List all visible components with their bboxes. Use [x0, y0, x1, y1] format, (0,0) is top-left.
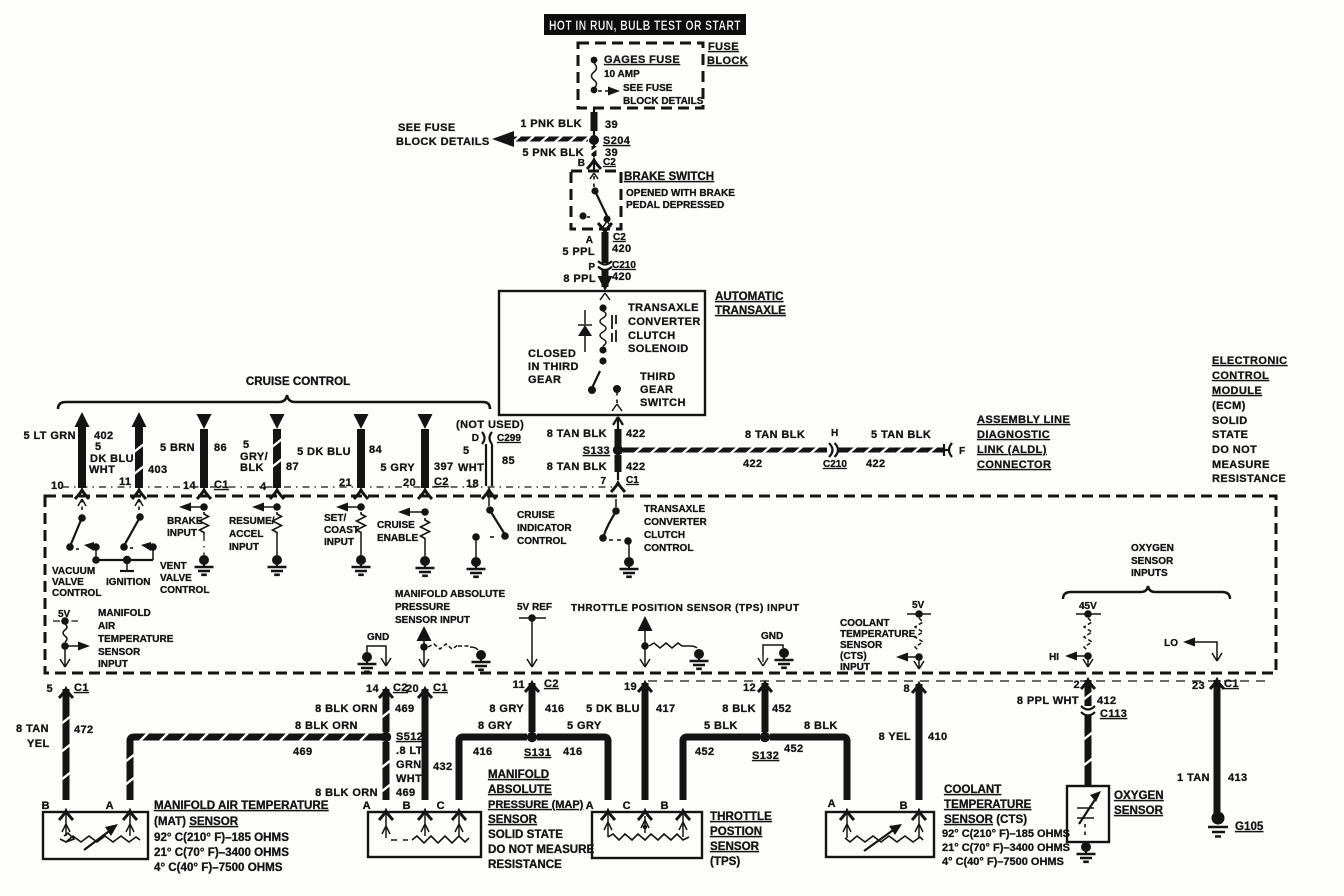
svg-text:SEE FUSE: SEE FUSE: [623, 83, 673, 94]
svg-text:BRAKE: BRAKE: [167, 516, 203, 527]
svg-text:422: 422: [743, 458, 763, 470]
svg-text:SENSOR: SENSOR: [98, 647, 141, 658]
svg-text:BLOCK: BLOCK: [707, 55, 748, 67]
svg-text:417: 417: [656, 703, 676, 715]
wire 416 8 GRY pin11 to S131: [489, 683, 564, 732]
svg-text:S204: S204: [603, 135, 631, 147]
svg-text:S512: S512: [396, 731, 423, 743]
svg-text:5 DK BLU: 5 DK BLU: [297, 446, 351, 458]
svg-text:H: H: [831, 428, 838, 439]
TCC control switch Q4: [599, 499, 638, 577]
MAT input label: [98, 608, 174, 670]
svg-text:1 TAN: 1 TAN: [1177, 772, 1210, 784]
oxygen sensor case ground: [1077, 842, 1096, 862]
MAT sensor box: [43, 812, 148, 859]
svg-text:SENSOR INPUT: SENSOR INPUT: [395, 615, 470, 626]
wire 469 8 BLK ORN pin14 to S512 (hatched): [315, 689, 414, 732]
svg-text:MANIFOLD: MANIFOLD: [98, 608, 151, 619]
svg-text:39: 39: [605, 119, 618, 131]
MAT thermistor RT1: [60, 812, 140, 850]
vent valve control switch Q2: [120, 499, 157, 560]
ECM dashed box: [45, 496, 1276, 673]
ignition bus: [92, 556, 153, 588]
svg-text:C210: C210: [612, 260, 636, 271]
svg-text:YEL: YEL: [27, 738, 50, 750]
svg-text:HI: HI: [1049, 652, 1059, 663]
svg-text:12: 12: [743, 682, 756, 694]
svg-text:8 TAN BLK: 8 TAN BLK: [547, 428, 607, 440]
svg-text:SEE FUSE: SEE FUSE: [398, 122, 456, 134]
svg-text:CONNECTOR: CONNECTOR: [977, 459, 1051, 471]
wire 413 1 TAN pin23 to G105: [1177, 680, 1248, 813]
svg-text:WHT: WHT: [396, 773, 422, 785]
svg-text:5 PPL: 5 PPL: [562, 246, 595, 258]
wire 432 pin20 to MAP B: [425, 689, 453, 800]
svg-text:INPUT: INPUT: [167, 528, 197, 539]
svg-text:VALVE: VALVE: [160, 573, 192, 584]
svg-text:5V REF: 5V REF: [517, 602, 552, 613]
svg-text:RESISTANCE: RESISTANCE: [1212, 473, 1286, 485]
svg-text:GAGES FUSE: GAGES FUSE: [604, 54, 680, 66]
svg-text:D: D: [472, 433, 479, 444]
svg-text:10: 10: [51, 480, 64, 492]
svg-text:469: 469: [396, 787, 416, 799]
svg-text:OXYGEN: OXYGEN: [1114, 789, 1164, 802]
oxygen sensor inputs label: [1131, 543, 1174, 579]
svg-text:MANIFOLD ABSOLUTE: MANIFOLD ABSOLUTE: [395, 589, 506, 600]
set/coast input network R3: [324, 503, 371, 575]
svg-text:LINK (ALDL): LINK (ALDL): [977, 444, 1047, 456]
svg-text:4° C(40° F)–7500 OHMS: 4° C(40° F)–7500 OHMS: [942, 856, 1064, 868]
svg-text:DO NOT: DO NOT: [1212, 444, 1257, 456]
svg-text:422: 422: [866, 458, 886, 470]
brake switch labels: [624, 170, 735, 211]
svg-text:RESUME/: RESUME/: [229, 516, 275, 527]
svg-text:SENSOR: SENSOR: [488, 813, 538, 826]
svg-text:WHT: WHT: [458, 462, 484, 474]
MAP input label: [395, 589, 506, 626]
wire 39 5 PNK BLK S204 to brake switch: [522, 144, 618, 159]
svg-text:AIR: AIR: [98, 621, 116, 632]
svg-text:PEDAL DEPRESSED: PEDAL DEPRESSED: [626, 200, 724, 211]
wire 397 5 GRY (cruise enable): [380, 414, 453, 499]
closed in third gear note: [528, 348, 579, 386]
GND node (TPS ground): [758, 631, 794, 668]
third gear switch text: [640, 371, 686, 409]
svg-text:C2: C2: [613, 232, 626, 243]
CTS terminals A B: [828, 798, 926, 820]
TCC solenoid L1: [599, 293, 616, 354]
svg-text:CRUISE: CRUISE: [517, 510, 555, 521]
svg-text:452: 452: [784, 743, 804, 755]
ECM pin 5 C1: [46, 682, 88, 698]
svg-text:CONTROL: CONTROL: [1212, 370, 1269, 382]
ECM pin 12: [743, 682, 772, 694]
svg-text:A: A: [586, 800, 594, 812]
connector dash-dot line (ECM bottom): [648, 680, 1270, 682]
cruise indicator control switch Q3: [467, 490, 509, 577]
automatic transaxle label: [715, 290, 786, 317]
svg-text:GRN: GRN: [396, 759, 422, 771]
svg-text:STATE: STATE: [1212, 429, 1248, 441]
CTS thermistor RT2: [843, 812, 923, 851]
svg-text:INPUT: INPUT: [229, 542, 259, 553]
svg-text:5 BRN: 5 BRN: [160, 442, 195, 454]
wire 86 5 BRN (brake input): [160, 414, 229, 499]
svg-text:5: 5: [243, 439, 250, 451]
svg-text:8 GRY: 8 GRY: [478, 720, 513, 732]
splice S132: [752, 732, 779, 762]
splice S204: [589, 135, 631, 147]
svg-text:SENSOR: SENSOR: [1131, 556, 1174, 567]
svg-text:INPUT: INPUT: [840, 662, 870, 673]
svg-text:CLOSED: CLOSED: [528, 348, 576, 360]
svg-text:5: 5: [463, 445, 470, 457]
svg-text:HOT IN RUN, BULB TEST OR START: HOT IN RUN, BULB TEST OR START: [549, 18, 741, 33]
svg-text:IN THIRD: IN THIRD: [528, 361, 579, 373]
svg-text:23: 23: [1192, 680, 1205, 692]
ALDL connector pin F: [944, 443, 965, 457]
MAP sensor internal resistor: [382, 812, 469, 843]
splice S512: [381, 731, 423, 743]
svg-text:B: B: [900, 800, 908, 812]
svg-text:OPENED WITH BRAKE: OPENED WITH BRAKE: [626, 188, 735, 199]
svg-text:PRESSURE: PRESSURE: [395, 602, 450, 613]
svg-text:A: A: [363, 800, 371, 812]
svg-text:BLK: BLK: [240, 462, 264, 474]
svg-text:(CTS): (CTS): [840, 651, 867, 662]
svg-text:84: 84: [369, 444, 383, 456]
splice S131: [524, 732, 551, 759]
connector dash-dot line C1/C2 (ECM top): [62, 486, 614, 488]
wire 412 pin2 C113 to oxygen sensor (hatched): [1083, 716, 1093, 786]
svg-text:420: 420: [612, 271, 632, 283]
svg-text:SOLENOID: SOLENOID: [628, 343, 689, 355]
MAP input network R6: [417, 626, 491, 670]
wire 422 8 TAN BLK S133 to C210 (hatched): [623, 429, 827, 470]
svg-text:422: 422: [626, 461, 646, 473]
wire 422 5 TAN BLK C210 to ALDL pin F (hatched): [838, 429, 944, 470]
wire 452 8 BLK pin12 to S132: [722, 683, 791, 732]
svg-text:8 BLK: 8 BLK: [804, 720, 838, 732]
svg-text:SENSOR: SENSOR: [1114, 804, 1164, 817]
ECM pin 2: [1073, 679, 1095, 691]
svg-text:8: 8: [903, 683, 910, 695]
wire 403 5 DK BLU WHT (vent valve control): [89, 412, 168, 499]
O2 LO input node: [1164, 638, 1222, 662]
ALDL connector label: [977, 414, 1070, 471]
svg-text:DO NOT MEASURE: DO NOT MEASURE: [488, 843, 595, 856]
svg-text:S131: S131: [524, 747, 551, 759]
svg-text:432: 432: [433, 761, 453, 773]
svg-text:SENSOR: SENSOR: [710, 840, 760, 853]
svg-text:BLOCK DETAILS: BLOCK DETAILS: [396, 136, 490, 148]
fuse F1 GAGES FUSE 10 AMP: [591, 54, 681, 93]
ECM pin 11 C2: [513, 678, 559, 692]
svg-text:403: 403: [148, 464, 168, 476]
svg-text:G105: G105: [1235, 820, 1264, 833]
svg-text:8 BLK ORN: 8 BLK ORN: [315, 703, 378, 715]
MAT input network 5V R5: [53, 609, 90, 667]
svg-text:397: 397: [434, 461, 454, 473]
svg-text:C: C: [623, 800, 631, 812]
wire 416 5 GRY S131 to TPS A: [537, 720, 608, 800]
svg-text:2: 2: [1073, 679, 1080, 691]
svg-text:8 GRY: 8 GRY: [489, 703, 524, 715]
svg-text:CRUISE: CRUISE: [377, 520, 415, 531]
svg-text:B: B: [403, 800, 411, 812]
svg-text:FUSE: FUSE: [708, 41, 739, 53]
svg-text:CLUTCH: CLUTCH: [628, 330, 676, 342]
solenoid text: [628, 302, 701, 355]
O2 HI input network R9 45V: [1049, 601, 1101, 667]
svg-text:420: 420: [612, 243, 632, 255]
svg-text:CONTROL: CONTROL: [517, 536, 566, 547]
wire 422 8 TAN BLK below transaxle: [547, 417, 646, 446]
svg-text:VENT: VENT: [160, 561, 187, 572]
svg-text:5: 5: [95, 441, 102, 453]
svg-text:416: 416: [473, 746, 493, 758]
svg-text:TEMPERATURE: TEMPERATURE: [98, 634, 174, 645]
svg-text:COOLANT: COOLANT: [944, 783, 1001, 796]
brake switch box: [571, 171, 621, 229]
svg-text:.8 LT: .8 LT: [396, 745, 423, 757]
svg-text:S133: S133: [583, 445, 610, 457]
svg-text:11: 11: [119, 476, 131, 488]
svg-text:21° C(70° F)–3400 OHMS: 21° C(70° F)–3400 OHMS: [154, 846, 289, 859]
svg-text:92° C(210° F)–185 OHMS: 92° C(210° F)–185 OHMS: [942, 828, 1070, 840]
svg-text:8 YEL: 8 YEL: [879, 731, 911, 743]
svg-text:8 PPL WHT: 8 PPL WHT: [1017, 695, 1079, 707]
svg-text:S132: S132: [752, 750, 779, 762]
TPS label: [710, 810, 772, 868]
svg-text:CRUISE CONTROL: CRUISE CONTROL: [246, 375, 350, 388]
svg-text:C2: C2: [603, 157, 616, 168]
MAP sensor label: [488, 768, 595, 871]
svg-text:TEMPERATURE: TEMPERATURE: [840, 629, 916, 640]
svg-text:410: 410: [928, 731, 948, 743]
wire 452 8 BLK S132 to CTS A: [770, 720, 847, 800]
svg-text:C1: C1: [626, 475, 639, 486]
svg-text:5: 5: [46, 683, 53, 695]
cruise indicator control label: [517, 510, 572, 547]
MAT sensor terminal A: [106, 800, 137, 820]
inline connector C210 pin P: [588, 260, 636, 273]
wire 39 1 PNK BLK fuse to S204: [520, 108, 618, 137]
brake input network R1: [167, 503, 214, 575]
svg-text:C1: C1: [1224, 678, 1239, 690]
CTS input label: [840, 618, 916, 673]
svg-text:C2: C2: [544, 678, 559, 690]
svg-text:SOLID: SOLID: [1212, 415, 1248, 427]
svg-text:GEAR: GEAR: [528, 374, 561, 386]
svg-text:WHT: WHT: [89, 464, 115, 476]
oxygen sensor label: [1114, 789, 1164, 817]
CTS label: [942, 783, 1070, 868]
wire 422 8 TAN BLK S133 to ECM pin 7: [547, 455, 646, 492]
ECM pin 20 C1: [406, 682, 448, 698]
svg-text:DIAGNOSTIC: DIAGNOSTIC: [977, 429, 1050, 441]
vacuum valve control switch Q1: [66, 499, 100, 560]
svg-text:87: 87: [286, 461, 299, 473]
GND node (MAP ground): [358, 632, 392, 672]
cruise enable network R4: [377, 508, 435, 576]
svg-text:SENSOR (CTS): SENSOR (CTS): [944, 813, 1027, 826]
ECM pin 23 C1: [1192, 678, 1239, 692]
svg-text:452: 452: [772, 703, 792, 715]
svg-text:TEMPERATURE: TEMPERATURE: [944, 798, 1032, 811]
svg-text:92° C(210° F)–185 OHMS: 92° C(210° F)–185 OHMS: [154, 831, 289, 844]
svg-text:A: A: [828, 798, 836, 810]
svg-text:B: B: [661, 800, 669, 812]
svg-text:INDICATOR: INDICATOR: [517, 523, 572, 534]
svg-text:C1: C1: [74, 682, 89, 694]
vent valve control label: [160, 561, 209, 596]
MAT sensor label: [154, 799, 329, 874]
svg-text:(TPS): (TPS): [710, 855, 740, 868]
svg-text:MEASURE: MEASURE: [1212, 459, 1270, 471]
svg-text:C1: C1: [433, 682, 448, 694]
oxygen sensor element B1: [1077, 791, 1101, 838]
svg-text:4° C(40° F)–7500 OHMS: 4° C(40° F)–7500 OHMS: [154, 861, 283, 874]
third gear switch S: [588, 357, 622, 411]
svg-text:10 AMP: 10 AMP: [604, 69, 640, 80]
svg-text:F: F: [959, 446, 965, 457]
svg-text:CONVERTER: CONVERTER: [628, 316, 701, 328]
svg-text:ENABLE: ENABLE: [377, 533, 418, 544]
vacuum valve control label: [52, 566, 101, 599]
connector C2 pin B (brake switch): [578, 157, 616, 171]
TPS input network R7: [638, 616, 709, 669]
svg-text:THROTTLE POSITION SENSOR (TPS): THROTTLE POSITION SENSOR (TPS) INPUT: [571, 603, 800, 614]
svg-text:BLOCK DETAILS: BLOCK DETAILS: [623, 96, 704, 107]
svg-text:(NOT USED): (NOT USED): [456, 419, 524, 431]
wire 452 5 BLK S132 to TPS B: [683, 720, 760, 800]
svg-text:IGNITION: IGNITION: [106, 577, 150, 588]
ECM module label: [1212, 355, 1288, 485]
svg-text:(MAT) SENSOR: (MAT) SENSOR: [154, 815, 239, 828]
svg-text:18: 18: [466, 478, 479, 490]
wire 469 .8 LT GRN WHT S512 to MAP A (hatched): [315, 742, 423, 800]
svg-text:MANIFOLD AIR TEMPERATURE: MANIFOLD AIR TEMPERATURE: [154, 799, 329, 812]
resume/accel input network R2: [229, 503, 287, 575]
svg-text:5 LT GRN: 5 LT GRN: [24, 430, 77, 442]
svg-text:SOLID STATE: SOLID STATE: [488, 828, 563, 841]
svg-text:422: 422: [626, 428, 646, 440]
svg-text:OXYGEN: OXYGEN: [1131, 543, 1174, 554]
svg-text:THIRD: THIRD: [640, 371, 676, 383]
inline connector C210 pin H (ALDL run): [823, 428, 847, 470]
svg-text:GEAR: GEAR: [640, 384, 673, 396]
svg-text:472: 472: [74, 724, 94, 736]
svg-text:C1: C1: [214, 479, 229, 491]
svg-text:8 PPL: 8 PPL: [563, 273, 596, 285]
svg-text:7: 7: [600, 476, 606, 487]
svg-text:CONVERTER: CONVERTER: [644, 517, 708, 528]
brake switch contacts: [579, 173, 611, 227]
TPS potentiometer: [604, 812, 689, 840]
svg-text:14: 14: [366, 683, 380, 695]
hatched arrow to fuse block details: [396, 122, 590, 148]
svg-text:SET/: SET/: [324, 513, 346, 524]
wire 84 5 DK BLU (set/coast input): [297, 414, 382, 499]
svg-text:5 TAN BLK: 5 TAN BLK: [871, 429, 931, 441]
TPS sensor box: [592, 812, 702, 858]
svg-text:8 BLK: 8 BLK: [722, 703, 756, 715]
svg-text:5V: 5V: [912, 600, 925, 611]
MAP sensor terminals A B C: [363, 800, 466, 820]
wire 472 8 TAN YEL pin5 to MAT B (hatched): [16, 689, 94, 800]
connector C2 pin A below brake switch: [586, 223, 626, 246]
wire 87 5 GRY/BLK (resume/accel input): [240, 414, 299, 499]
wire 412 8 PPL WHT pin2 to C113 (hatched): [1017, 680, 1117, 707]
svg-text:8 TAN BLK: 8 TAN BLK: [547, 461, 607, 473]
svg-text:P: P: [588, 262, 595, 273]
svg-text:5 BLK: 5 BLK: [704, 720, 738, 732]
see fuse block details note (inside fuse block): [598, 83, 704, 107]
svg-text:CONTROL: CONTROL: [644, 543, 693, 554]
svg-text:413: 413: [1228, 772, 1248, 784]
svg-text:C113: C113: [1100, 708, 1127, 720]
svg-text:416: 416: [545, 703, 565, 715]
CTS input network R8: [896, 600, 931, 669]
svg-text:POSTION: POSTION: [710, 825, 762, 838]
svg-text:CONTROL: CONTROL: [160, 585, 209, 596]
MAT sensor terminal B: [42, 800, 73, 820]
ground G105: [1208, 812, 1264, 837]
svg-text:BRAKE SWITCH: BRAKE SWITCH: [624, 170, 714, 183]
svg-text:469: 469: [395, 703, 415, 715]
connector C299 pin D (not used): [456, 419, 524, 444]
svg-text:C210: C210: [823, 459, 847, 470]
wire 417 5 DK BLU pin19 to TPS C: [586, 683, 676, 800]
automatic transaxle box: [499, 291, 705, 415]
svg-text:A: A: [106, 800, 114, 812]
wire 410 8 YEL pin8 to CTS B: [879, 684, 948, 800]
svg-text:RESISTANCE: RESISTANCE: [488, 858, 562, 871]
svg-text:8 TAN BLK: 8 TAN BLK: [745, 429, 805, 441]
svg-text:14: 14: [183, 480, 197, 492]
svg-text:COAST: COAST: [324, 525, 359, 536]
wire 469 8 BLK ORN MAT A to S512 (hatched): [125, 720, 382, 800]
svg-text:8 BLK ORN: 8 BLK ORN: [315, 787, 378, 799]
svg-text:VACUUM: VACUUM: [52, 566, 95, 577]
inline connector C113: [1081, 706, 1127, 720]
svg-text:MODULE: MODULE: [1212, 385, 1262, 397]
svg-text:5 PNK BLK: 5 PNK BLK: [522, 147, 584, 159]
cruise control brace: [58, 395, 490, 409]
wire 420 8 PPL: [563, 270, 631, 287]
oxygen sensor inputs brace: [1063, 586, 1230, 599]
svg-text:469: 469: [293, 746, 313, 758]
svg-text:(ECM): (ECM): [1212, 400, 1246, 412]
svg-text:5 DK BLU: 5 DK BLU: [586, 703, 640, 715]
arrow into transaxle box: [598, 276, 613, 291]
wire 402 5 LT GRN (vacuum valve control): [24, 412, 114, 499]
svg-text:8 TAN: 8 TAN: [16, 723, 49, 735]
svg-text:TRANSAXLE: TRANSAXLE: [644, 504, 705, 515]
svg-text:A: A: [586, 235, 593, 246]
svg-text:INPUT: INPUT: [98, 659, 128, 670]
svg-text:C2: C2: [434, 476, 449, 488]
svg-text:ACCEL: ACCEL: [229, 529, 263, 540]
svg-text:C299: C299: [497, 433, 521, 444]
TCC control label: [644, 504, 708, 554]
svg-text:20: 20: [406, 683, 419, 695]
svg-text:PRESSURE (MAP): PRESSURE (MAP): [488, 799, 584, 811]
svg-text:AUTOMATIC: AUTOMATIC: [715, 290, 784, 303]
svg-text:5 GRY: 5 GRY: [567, 720, 602, 732]
